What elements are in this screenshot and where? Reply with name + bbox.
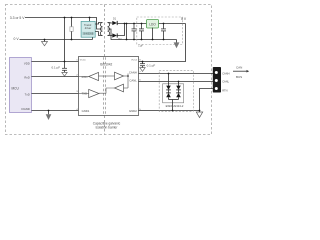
wire TVS stub CANL xyxy=(178,82,180,87)
wire TVS stub CANH xyxy=(168,74,170,87)
wire 3.3V rail xyxy=(25,18,103,30)
svg-text:VCC2: VCC2 xyxy=(131,59,138,61)
svg-text:VDD: VDD xyxy=(24,62,30,66)
svg-text:RTN: RTN xyxy=(222,88,227,92)
wire DGND xyxy=(32,110,79,112)
ground (earth) xyxy=(199,111,201,113)
svg-text:CANH: CANH xyxy=(129,70,137,74)
buffer bus receiver (points left) xyxy=(99,88,115,93)
svg-text:SN6505B: SN6505B xyxy=(83,33,94,36)
capacitor C5 xyxy=(141,24,143,29)
wire secondary bottom to D2 diode xyxy=(108,35,113,37)
wire VCC2 pin stub xyxy=(139,61,143,63)
wire 5V feed to VCC2 xyxy=(143,24,186,62)
wire driver GND stub xyxy=(92,37,94,39)
svg-text:CANL: CANL xyxy=(222,79,229,83)
svg-text:isolation barrier: isolation barrier xyxy=(96,125,119,129)
wire connector RTN to ground xyxy=(200,89,214,111)
wire RxD xyxy=(32,76,79,78)
buffer RXD (points left) xyxy=(79,76,89,78)
wire rectifier output rail xyxy=(117,23,185,25)
wire driver D1 to primary xyxy=(95,23,102,25)
TVS diode pair right xyxy=(176,86,181,90)
svg-text:GND2: GND2 xyxy=(129,109,137,113)
transformer driver U2 xyxy=(89,18,91,22)
ground (iso) arrow xyxy=(176,40,178,43)
TVS array D3 box xyxy=(163,84,184,103)
svg-text:0.1 µF: 0.1 µF xyxy=(147,63,156,67)
wire VDD (MCU to VCC1) xyxy=(32,61,79,63)
isolation barrier dashed line upper xyxy=(104,5,106,58)
TVS diode pair left xyxy=(166,86,171,90)
wire 0V rail xyxy=(20,39,93,41)
ground (DGND) arrow xyxy=(48,111,50,115)
wire VCC1 feed vertical xyxy=(64,18,66,62)
wire driver D2 to primary xyxy=(95,32,102,36)
ground (C1) xyxy=(62,72,67,76)
isolation barrier dashed line lower xyxy=(104,116,106,135)
junction dots xyxy=(64,17,66,19)
capacitor C4 xyxy=(133,24,135,29)
wire rail to bus link xyxy=(126,24,128,40)
wire secondary center tap to iso ground bus xyxy=(108,29,127,40)
svg-text:RXD: RXD xyxy=(82,75,88,79)
isolation barrier dashed lines inside chip xyxy=(103,57,105,115)
ground (0V) xyxy=(42,42,48,46)
svg-text:ESDCAN24-2: ESDCAN24-2 xyxy=(166,104,184,108)
svg-text:CAN: CAN xyxy=(236,66,242,70)
wire TxD xyxy=(32,93,79,95)
ground (C3) xyxy=(140,68,145,72)
svg-text:VCC1: VCC1 xyxy=(80,59,87,61)
svg-text:driver: driver xyxy=(85,26,92,30)
wire CANL xyxy=(139,81,214,83)
capacitor C6 xyxy=(163,24,165,29)
transformer T1 primary winding xyxy=(100,23,102,36)
capacitor C3 0.1uF xyxy=(142,62,144,64)
wire CANH xyxy=(139,73,214,75)
svg-text:ISO1042: ISO1042 xyxy=(100,62,113,66)
optional LDO dashed box xyxy=(137,17,183,45)
outer dashed enclosure border xyxy=(6,5,212,135)
transformer T1 secondary winding xyxy=(108,23,110,36)
wire D2 output up to rail xyxy=(117,24,124,36)
transceiver U1 ISO1042 box xyxy=(79,57,139,116)
diode D1 xyxy=(112,21,117,25)
svg-text:DGND: DGND xyxy=(22,107,30,111)
wire LDO ground stub xyxy=(152,28,154,40)
TVS protection dashed box xyxy=(159,70,193,111)
svg-text:LDO: LDO xyxy=(149,23,156,27)
svg-text:CANH: CANH xyxy=(222,71,229,75)
svg-text:0 V: 0 V xyxy=(14,37,20,41)
diode D2 xyxy=(112,33,117,37)
wire iso ground bus xyxy=(127,39,177,41)
svg-text:CANL: CANL xyxy=(129,78,137,82)
buffer bus driver (points right) xyxy=(99,75,115,77)
MCU box xyxy=(10,58,32,113)
svg-text:GND1: GND1 xyxy=(82,109,90,113)
wire GND2 rail xyxy=(139,110,200,112)
svg-text:MCU: MCU xyxy=(12,86,20,90)
svg-text:BUS: BUS xyxy=(236,75,242,79)
connector J1 xyxy=(213,67,221,93)
svg-text:1 µF: 1 µF xyxy=(138,45,143,48)
svg-text:RxD: RxD xyxy=(24,75,29,79)
buffer TXD (points right) xyxy=(79,93,89,95)
svg-text:0.1 µF: 0.1 µF xyxy=(52,65,61,69)
ferrite bead FB1 xyxy=(71,18,73,27)
svg-text:TxD: TxD xyxy=(25,92,30,96)
wire TVS common to bottom xyxy=(169,99,179,101)
wire secondary top to D1 diode xyxy=(108,22,113,25)
regulator LDO U3 xyxy=(147,20,159,29)
svg-text:3.3 or 5 V: 3.3 or 5 V xyxy=(10,16,25,20)
svg-text:5 V: 5 V xyxy=(181,17,187,21)
